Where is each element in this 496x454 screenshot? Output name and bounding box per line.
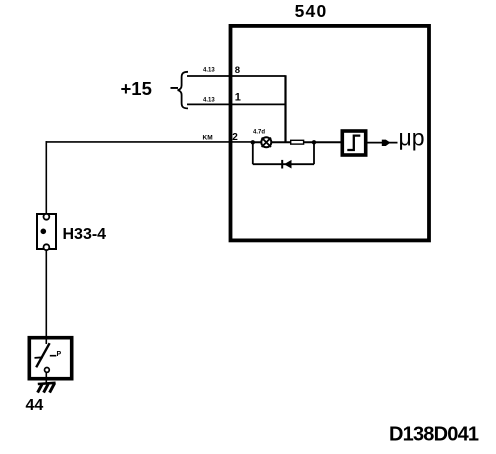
svg-text:4.13: 4.13 <box>203 68 215 74</box>
output wire <box>368 142 398 144</box>
svg-text:+15: +15 <box>121 78 152 99</box>
svg-text:1: 1 <box>235 92 241 104</box>
junction dot right <box>312 140 316 144</box>
wire pin 1 <box>187 103 286 105</box>
svg-text:8: 8 <box>235 65 240 76</box>
loop wire right vertical <box>313 142 315 164</box>
wire pin 8 <box>187 75 286 77</box>
dash after +15 <box>171 87 179 89</box>
left vertical wire <box>45 141 47 214</box>
arrow head <box>382 140 391 146</box>
loop wire left vertical <box>252 142 254 164</box>
threshold block <box>342 131 365 155</box>
svg-text:D138D041: D138D041 <box>389 424 479 446</box>
pressure switch box 44 <box>29 336 71 384</box>
svg-text:540: 540 <box>295 1 328 21</box>
wire KM (left horizontal) <box>46 141 253 143</box>
resistor <box>291 140 304 144</box>
ground <box>38 383 56 393</box>
loop wire bottom <box>253 163 314 165</box>
svg-text:P: P <box>57 351 62 358</box>
vertical joining wire <box>284 75 286 142</box>
svg-text:44: 44 <box>26 397 44 414</box>
svg-text:KM: KM <box>203 135 213 142</box>
svg-text:H33-4: H33-4 <box>63 226 107 243</box>
svg-text:4.7d: 4.7d <box>253 130 265 136</box>
lamp 4.7d <box>261 137 271 147</box>
brace <box>178 72 188 109</box>
junction dot left <box>251 140 255 144</box>
wire connector to switch <box>45 250 47 337</box>
wire inside box to threshold block <box>253 141 342 143</box>
control unit box 540 <box>231 26 430 241</box>
diode K <box>282 160 291 169</box>
svg-text:2: 2 <box>232 132 238 143</box>
svg-text:4.13: 4.13 <box>203 98 215 104</box>
svg-text:μp: μp <box>399 125 425 151</box>
connector H33-4 <box>37 214 56 250</box>
